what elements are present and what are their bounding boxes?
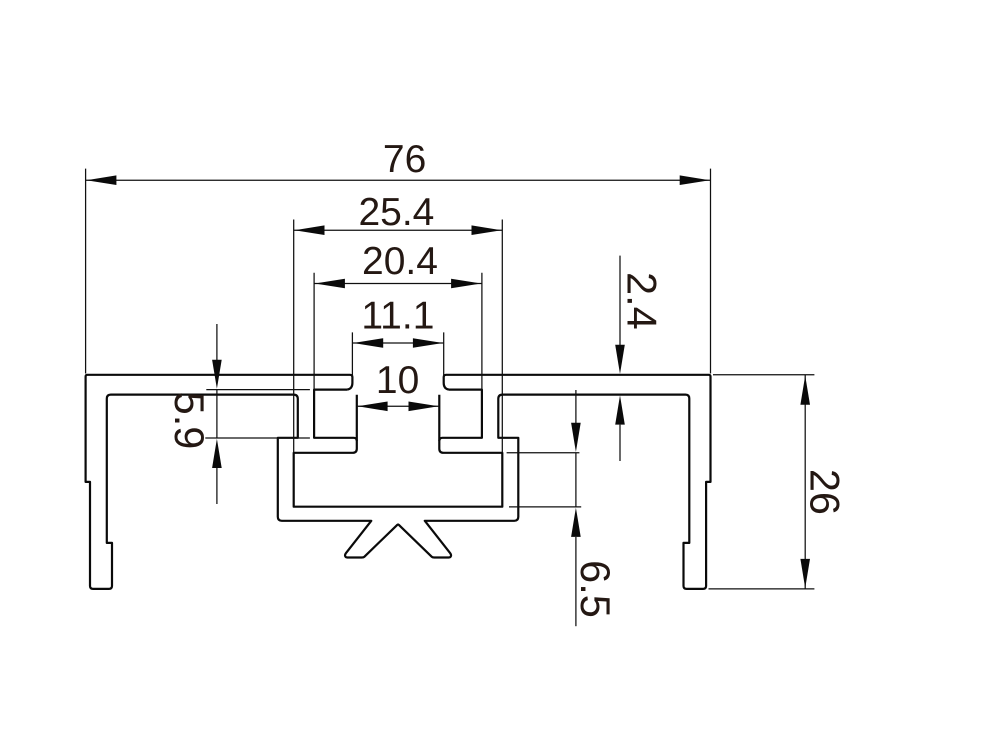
dimension 5.9: lower arrowhead bbox=[212, 439, 222, 468]
dimension 76: left arrowhead bbox=[86, 175, 116, 185]
dimension 76: dimension line bbox=[86, 179, 711, 181]
dimension 6.5: upper arrow shaft bbox=[575, 390, 577, 423]
dimension 11.1: right arrowhead bbox=[413, 338, 443, 348]
svg-text:2.4: 2.4 bbox=[619, 272, 666, 330]
svg-text:76: 76 bbox=[383, 138, 426, 181]
dimension 2.4: lower arrowhead bbox=[615, 395, 625, 424]
dimension 10: left arrowhead bbox=[358, 402, 388, 412]
svg-text:6.5: 6.5 bbox=[572, 560, 619, 618]
dimension 6.5: extension lines bbox=[507, 453, 582, 507]
dimension 2.4: lower arrow shaft bbox=[619, 425, 621, 461]
dimension 6.5: lower arrow shaft bbox=[575, 537, 577, 626]
dimension 20.4: left arrowhead bbox=[315, 279, 345, 289]
cavity A (left closed pocket) bbox=[314, 390, 357, 441]
dimension 10: right arrowhead bbox=[409, 402, 439, 412]
dimension 5.9: upper arrow shaft bbox=[216, 324, 218, 360]
profile outer contour (bar, legs, skirt, feet) bbox=[86, 375, 711, 589]
svg-text:25.4: 25.4 bbox=[358, 191, 434, 234]
dimension 25.4: left arrowhead bbox=[295, 225, 325, 235]
dimension 11.1: dimension line bbox=[352, 342, 443, 344]
dimension 26: extension lines bbox=[709, 375, 815, 589]
svg-text:20.4: 20.4 bbox=[362, 240, 438, 283]
dimension 20.4: extension lines bbox=[314, 273, 482, 390]
dimension 25.4: right arrowhead bbox=[472, 225, 502, 235]
svg-text:11.1: 11.1 bbox=[361, 295, 434, 338]
cavity B (right closed pocket) bbox=[439, 390, 482, 441]
dimension 11.1: extension lines bbox=[352, 332, 443, 378]
svg-text:10: 10 bbox=[376, 359, 419, 402]
dimension 25.4: extension lines bbox=[294, 220, 503, 453]
dimension 5.9: lower arrow shaft bbox=[216, 468, 218, 504]
dimension 2.4: upper arrow shaft bbox=[619, 256, 621, 345]
dimension 26: upper arrowhead bbox=[800, 376, 810, 405]
dimension 76: extension lines bbox=[86, 169, 711, 374]
dimension 10: dimension line bbox=[357, 405, 440, 407]
dimension 76: right arrowhead bbox=[680, 175, 710, 185]
T-slot interior: neck walls, lip undersides, cavity walls and floor bbox=[294, 395, 503, 507]
dimension 5.9: upper arrowhead bbox=[212, 360, 222, 389]
dimension 20.4: dimension line bbox=[314, 283, 482, 285]
dimension 6.5: dimension line bbox=[575, 453, 577, 507]
dimension 5.9: dimension line bbox=[216, 390, 218, 438]
dimension 26: dimension line bbox=[804, 375, 806, 589]
svg-text:5.9: 5.9 bbox=[166, 392, 213, 450]
dimension 6.5: lower arrowhead bbox=[571, 508, 581, 537]
dimension 6.5: upper arrowhead bbox=[571, 423, 581, 452]
dimension 2.4: upper arrowhead bbox=[615, 345, 625, 374]
dimension 20.4: right arrowhead bbox=[451, 279, 481, 289]
svg-text:26: 26 bbox=[802, 469, 849, 515]
dimension 26: lower arrowhead bbox=[800, 559, 810, 588]
dimension 5.9: extension lines bbox=[205, 390, 310, 438]
dimension 11.1: left arrowhead bbox=[353, 338, 383, 348]
dimension 25.4: dimension line bbox=[294, 229, 503, 231]
